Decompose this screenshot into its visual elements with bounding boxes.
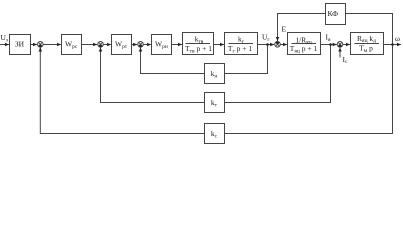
svg-text:kс: kс — [211, 129, 218, 139]
svg-text:Iя: Iя — [326, 33, 332, 43]
svg-text:Uз: Uз — [1, 33, 9, 43]
svg-text:Wрн: Wрн — [155, 40, 168, 50]
svg-text:Tяц p + 1: Tяц p + 1 — [290, 44, 318, 54]
svg-text:kт: kт — [211, 98, 218, 108]
svg-text:Iс: Iс — [343, 55, 349, 65]
svg-text:Tг p + 1: Tг p + 1 — [228, 44, 252, 54]
svg-text:Tтв p + 1: Tтв p + 1 — [185, 44, 212, 54]
svg-text:Wрт: Wрт — [115, 40, 128, 50]
svg-text:kн: kн — [211, 69, 218, 79]
svg-text:Tм p: Tм p — [359, 44, 373, 54]
svg-text:КФ: КФ — [327, 9, 338, 18]
svg-text:E: E — [282, 25, 287, 34]
svg-text:Uг: Uг — [262, 33, 270, 43]
svg-text:Wрс: Wрс — [65, 40, 78, 50]
svg-text:ω: ω — [395, 34, 400, 43]
svg-text:ЗИ: ЗИ — [15, 40, 25, 49]
